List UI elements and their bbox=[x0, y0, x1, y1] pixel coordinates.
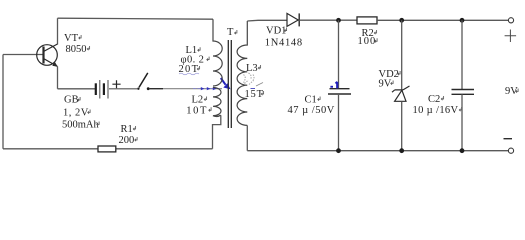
svg-text:8050: 8050 bbox=[66, 44, 87, 55]
svg-text:10T: 10T bbox=[186, 105, 208, 116]
wire: secondary top to diode bbox=[247, 19, 287, 22]
svg-text:C2: C2 bbox=[428, 94, 440, 105]
winding L1 (primary top) bbox=[213, 19, 222, 86]
svg-text:200: 200 bbox=[119, 135, 135, 146]
blue arrowhead 1 bbox=[201, 87, 205, 90]
resistor R1 bbox=[98, 146, 116, 152]
wire: collector vertical bbox=[57, 18, 59, 44]
svg-text:1, 2V: 1, 2V bbox=[63, 108, 89, 119]
wire: bottom rail left of R1 bbox=[3, 148, 98, 150]
wire: secondary bottom drop bbox=[246, 125, 248, 150]
C1 blue polarity mark bbox=[336, 82, 338, 89]
blue squiggle under 20T bbox=[179, 73, 199, 75]
output terminal minus bbox=[508, 148, 513, 153]
blue tap arrow bold bbox=[221, 78, 226, 85]
battery GB bbox=[96, 80, 108, 99]
wire: diode to R2 bbox=[299, 19, 357, 21]
wire: base lead horizontal bbox=[3, 54, 44, 56]
junction node VD2 bottom bbox=[399, 148, 404, 153]
wire: R2 to output plus bbox=[377, 19, 508, 21]
capacitor C2 bbox=[452, 90, 475, 95]
wire: emitter to battery bbox=[58, 88, 96, 90]
zener diode VD2 bbox=[392, 86, 410, 101]
svg-text:T: T bbox=[227, 27, 234, 38]
plus sign output bbox=[505, 30, 516, 43]
svg-text:47 µ /50V: 47 µ /50V bbox=[288, 105, 335, 116]
junction node C1 bottom bbox=[336, 148, 341, 153]
svg-text:9V: 9V bbox=[379, 79, 392, 90]
diode VD1 1N4148 bbox=[287, 13, 299, 26]
output terminal plus bbox=[508, 18, 513, 23]
wire: primary bottom jog bbox=[213, 115, 221, 149]
winding L2 (primary bottom) bbox=[213, 88, 221, 117]
wire: switch to center tap bbox=[150, 88, 163, 90]
capacitor C2 wire top bbox=[461, 20, 463, 89]
capacitor C1 wire top bbox=[338, 20, 340, 88]
svg-text:C1: C1 bbox=[305, 95, 317, 106]
wire: left vertical bbox=[2, 55, 4, 149]
svg-text:VT: VT bbox=[64, 33, 79, 44]
switch S bbox=[137, 73, 149, 90]
svg-text:R1: R1 bbox=[121, 124, 133, 135]
capacitor C2 wire bottom bbox=[461, 94, 463, 150]
wire: battery to switch bbox=[109, 88, 137, 90]
svg-text:10 µ /16V: 10 µ /16V bbox=[413, 105, 459, 116]
blue arrowhead 3 bbox=[213, 87, 217, 90]
svg-text:L2: L2 bbox=[192, 94, 204, 105]
svg-text:15T: 15T bbox=[245, 89, 264, 100]
svg-text:100: 100 bbox=[358, 36, 377, 47]
transistor VT (8050 NPN) bbox=[37, 44, 58, 67]
winding L3 (secondary) bbox=[237, 21, 247, 125]
svg-text:VD1: VD1 bbox=[266, 25, 286, 36]
junction node C2 top bbox=[460, 18, 465, 23]
transformer T core bbox=[228, 40, 231, 128]
svg-text:1N4148: 1N4148 bbox=[265, 38, 303, 49]
svg-text:L3: L3 bbox=[246, 63, 258, 74]
zener VD2 wire bottom bbox=[401, 101, 403, 150]
minus sign output bbox=[504, 138, 513, 140]
resistor R2 bbox=[357, 17, 377, 24]
svg-text:GB: GB bbox=[64, 95, 79, 106]
grey noise squiggle bbox=[244, 73, 255, 86]
wire: blue dashed tap segment bbox=[193, 88, 220, 90]
junction node VD2 top bbox=[399, 18, 404, 23]
junction node C2 bottom bbox=[460, 148, 465, 153]
wire: bottom rail R1 to transformer bbox=[116, 148, 213, 150]
junction node C1 top bbox=[336, 18, 341, 23]
wire: emitter vertical bbox=[57, 67, 59, 89]
wire: secondary bottom rail bbox=[247, 150, 508, 152]
battery plus sign bbox=[112, 80, 120, 88]
wire: left loop top (collector to transformer) bbox=[58, 18, 214, 19]
blue arrowhead 2 bbox=[207, 87, 211, 90]
zener VD2 wire top bbox=[401, 20, 403, 89]
svg-text:500mAh: 500mAh bbox=[62, 120, 100, 131]
capacitor C1 wire bottom bbox=[338, 94, 340, 151]
capacitor C1 bbox=[330, 88, 350, 90]
